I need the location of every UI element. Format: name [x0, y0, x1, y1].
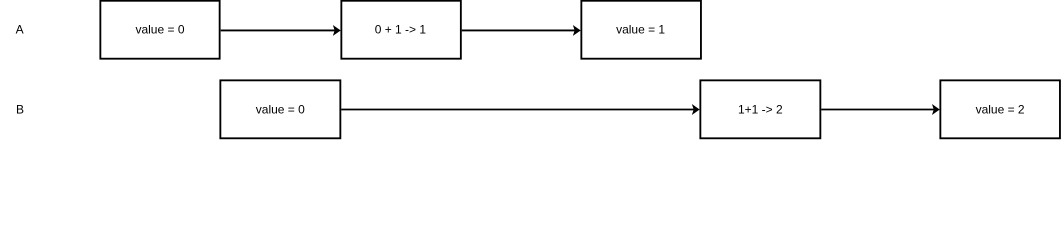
svg-text:value = 0: value = 0: [256, 103, 305, 117]
wire A2 to A3: [462, 26, 580, 34]
wire B2 to B3: [821, 105, 939, 113]
svg-text:0 + 1 -> 1: 0 + 1 -> 1: [375, 23, 427, 37]
box B1 value = 0: [220, 80, 340, 138]
svg-text:value = 0: value = 0: [135, 23, 184, 37]
svg-text:value = 1: value = 1: [616, 23, 665, 37]
svg-text:1+1 -> 2: 1+1 -> 2: [738, 103, 783, 117]
box A2 0 + 1 -> 1: [341, 1, 461, 59]
box B3 value = 2: [940, 80, 1060, 138]
wire B1 to B2: [341, 105, 699, 113]
box A1 value = 0: [100, 1, 219, 59]
wire A1 to A2: [221, 26, 340, 34]
box B2 1+1 -> 2: [700, 80, 820, 138]
box A3 value = 1: [581, 1, 701, 59]
svg-text:value = 2: value = 2: [976, 103, 1025, 117]
svg-text:B: B: [16, 103, 24, 117]
svg-text:A: A: [16, 23, 24, 37]
